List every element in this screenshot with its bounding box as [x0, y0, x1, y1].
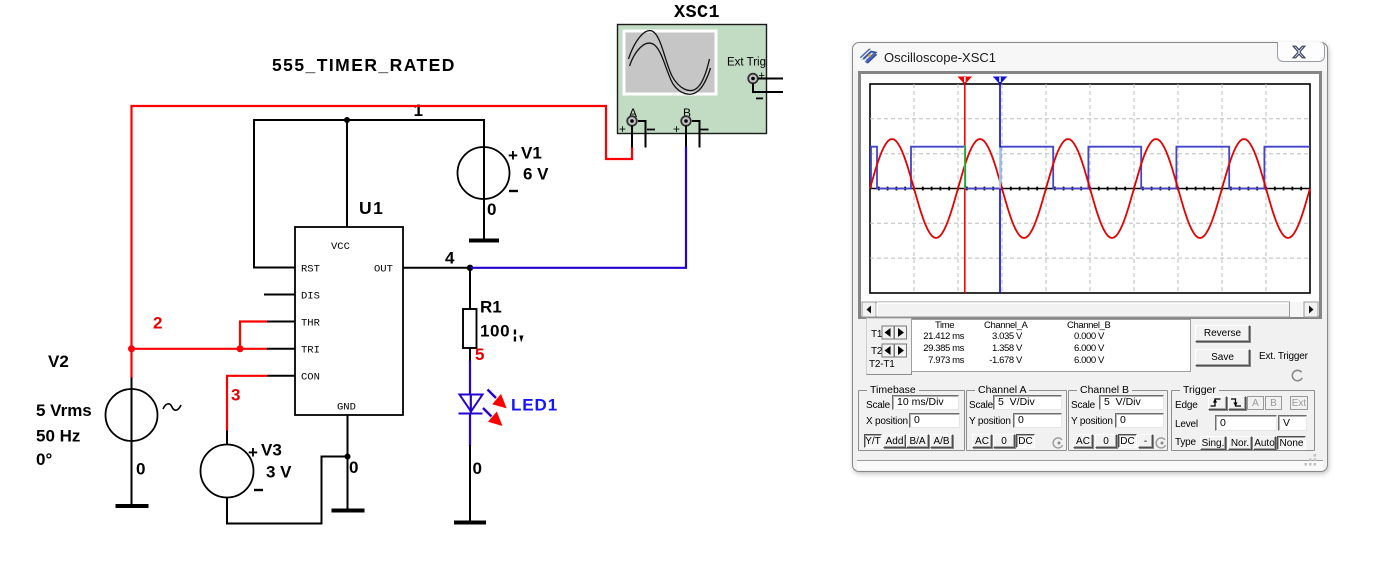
- wire net2 TRI rail red: [132, 348, 268, 350]
- wire net5 blue: [469, 361, 471, 396]
- close button: [1277, 42, 1325, 62]
- LED1 label: [511, 396, 558, 415]
- terminal B plus/minus: [673, 122, 709, 136]
- wire THR branch red: [240, 322, 268, 349]
- net label 2: [153, 314, 162, 333]
- cursor readout block T1/T2: [866, 318, 912, 375]
- wire scope B pin: [685, 126, 687, 148]
- trigger rising edge icon: [1211, 399, 1221, 406]
- net label 1: [414, 101, 423, 120]
- svg-text:DIS: DIS: [301, 291, 320, 303]
- cursor 1 red line: [964, 84, 966, 293]
- node junction net2 left: [128, 345, 135, 352]
- R1 labels: [480, 298, 510, 341]
- instrument screen: [623, 30, 718, 96]
- scope graph background: [870, 84, 1310, 293]
- wire CON stub: [267, 375, 295, 377]
- Ext. Trigger label: [1259, 351, 1308, 362]
- oscilloscope instrument XSC1 body: [618, 25, 767, 134]
- Timebase group: [858, 390, 965, 451]
- svg-text:5 Vrms: 5 Vrms: [36, 401, 92, 420]
- V2 labels: [36, 352, 145, 479]
- U1 555 timer box: [295, 227, 403, 415]
- wire net3 red: [227, 376, 268, 432]
- wire LED1 to ground: [469, 445, 471, 521]
- svg-text:100: 100: [480, 322, 510, 341]
- svg-text:0: 0: [349, 458, 358, 477]
- scrollbar track: [862, 302, 1318, 317]
- Channel B group: [1068, 390, 1168, 451]
- svg-text:+: +: [248, 443, 258, 462]
- V2 sine symbol: [163, 404, 181, 410]
- Reverse button: [1195, 325, 1250, 342]
- cursor 2 marker triangle: [993, 77, 1008, 85]
- wire OUT stub net4: [403, 267, 470, 269]
- svg-text:1: 1: [414, 101, 423, 120]
- svg-text:5: 5: [475, 345, 484, 364]
- axis tick marks: [879, 187, 1301, 191]
- XSC1 label: [674, 2, 720, 23]
- V1 source circle: [458, 147, 510, 199]
- svg-text:4: 4: [445, 249, 455, 268]
- V2 source circle: [106, 389, 158, 441]
- svg-text:6 V: 6 V: [523, 165, 549, 184]
- svg-text:LED1: LED1: [511, 396, 558, 415]
- svg-text:OUT: OUT: [374, 264, 393, 276]
- svg-text:2: 2: [153, 314, 162, 333]
- wire ext trig minus: [753, 84, 783, 93]
- svg-text:A: A: [629, 106, 637, 120]
- instrument screen sine curves: [629, 31, 711, 95]
- readout table: [911, 319, 1191, 372]
- Ext Trig label: [727, 57, 766, 69]
- terminal A plus/minus: [619, 122, 655, 136]
- svg-text:+: +: [619, 122, 626, 136]
- svg-text:XSC1: XSC1: [674, 2, 720, 23]
- wire net2 left drop red: [130, 105, 132, 379]
- wire V2 lead: [131, 378, 133, 506]
- wire V3 negative loop: [227, 457, 348, 524]
- scope grid vertical lines: [914, 84, 1266, 293]
- net label 5: [475, 345, 484, 364]
- node net4 junction: [467, 265, 473, 271]
- terminal A: [627, 116, 637, 126]
- svg-text:Ext Trig: Ext Trig: [727, 57, 766, 69]
- cursor 1 marker triangle: [958, 77, 973, 85]
- close button X glyph: [1293, 46, 1305, 58]
- channel B coupling indicator circle: [1156, 438, 1165, 448]
- svg-text:0°: 0°: [36, 450, 52, 469]
- wire TRI stub: [267, 348, 295, 350]
- svg-text:+: +: [673, 122, 680, 136]
- scope display panel: [858, 71, 1322, 319]
- net label 0 under LED: [473, 459, 482, 478]
- wire GND pin: [347, 415, 349, 509]
- oscilloscope window XSC1: [852, 42, 1328, 472]
- V1 labels: [487, 144, 549, 220]
- svg-text:CON: CON: [301, 372, 320, 384]
- svg-text:V3: V3: [261, 441, 282, 460]
- svg-text:VCC: VCC: [331, 241, 350, 253]
- node VCC junction: [344, 117, 350, 123]
- ground below V1: [469, 239, 499, 243]
- scrollbar left button: [862, 302, 876, 317]
- svg-text:U1: U1: [359, 198, 384, 218]
- svg-text:50 Hz: 50 Hz: [36, 427, 80, 446]
- wire net2 top rail red: [132, 105, 607, 107]
- wire scope B minus stub: [692, 121, 700, 148]
- svg-text:0: 0: [473, 459, 482, 478]
- T2 left/right arrow buttons: [882, 344, 907, 357]
- svg-text:B: B: [683, 106, 691, 120]
- resistor R1 body: [463, 309, 477, 348]
- node junction net2 THR: [237, 345, 244, 352]
- svg-text:THR: THR: [301, 318, 321, 330]
- channel A sine wave trace: [870, 139, 1310, 238]
- U1 pin labels: [301, 241, 393, 414]
- wire V3 top black: [226, 431, 228, 446]
- svg-text:3 V: 3 V: [266, 463, 292, 482]
- terminal B: [681, 116, 691, 126]
- ground below GND pin: [332, 509, 365, 513]
- svg-text:+: +: [508, 146, 518, 165]
- wire LED1 top blue: [469, 414, 471, 447]
- V3 source circle: [201, 445, 254, 498]
- wire scope A minus stub: [638, 121, 646, 148]
- node GND junction: [345, 454, 351, 460]
- svg-text:R1: R1: [480, 298, 502, 317]
- wire VCC pin: [346, 120, 348, 227]
- Trigger group: [1171, 390, 1315, 451]
- net label 3: [231, 386, 240, 405]
- net label 4: [445, 249, 455, 268]
- svg-text:+: +: [759, 70, 765, 82]
- T1 left/right arrow buttons: [882, 326, 907, 339]
- window resize grip: [1305, 454, 1317, 466]
- wire ext trig plus: [758, 78, 783, 80]
- Channel A group: [966, 390, 1067, 451]
- Save button: [1195, 349, 1250, 366]
- svg-text:555_TIMER_RATED: 555_TIMER_RATED: [272, 55, 456, 75]
- V3 minus sign: [254, 489, 263, 491]
- channel A coupling indicator circle: [1053, 438, 1062, 448]
- wire net1 RST to top rail: [254, 120, 485, 268]
- svg-text:RST: RST: [301, 264, 320, 276]
- svg-text:V1: V1: [521, 144, 542, 163]
- instrument label B: [683, 106, 691, 120]
- wire R1 bottom: [469, 348, 471, 362]
- scrollbar right button: [1304, 302, 1318, 317]
- svg-text:0: 0: [136, 460, 145, 479]
- V3 labels: [248, 441, 358, 482]
- cursor 2 blue line: [999, 84, 1001, 293]
- channel B square wave trace: [871, 147, 1310, 189]
- trigger falling edge icon: [1231, 399, 1241, 406]
- instrument label A: [629, 106, 637, 120]
- wire V1 lead: [483, 120, 485, 239]
- LED1 emission arrows: [483, 390, 507, 427]
- U1 reference label: [359, 198, 384, 218]
- ext trigger indicator circle: [1292, 370, 1302, 380]
- scrollbar thumb: [877, 302, 1290, 317]
- svg-text:0: 0: [487, 200, 496, 219]
- ground below V2: [116, 504, 149, 508]
- svg-text:GND: GND: [337, 402, 356, 414]
- ground below LED1: [454, 521, 486, 525]
- Ext Trig terminal: [748, 70, 765, 98]
- wire THR stub: [267, 321, 295, 323]
- scope grid horizontal lines: [870, 119, 1310, 258]
- svg-text:V2: V2: [48, 352, 69, 371]
- wire net2 right drop to scope A: [606, 105, 632, 159]
- wire net4 blue to scope B: [470, 147, 686, 268]
- R1 ohm garbled glyph: [514, 330, 524, 343]
- svg-text:TRI: TRI: [301, 345, 320, 357]
- title bar multisim icon: [860, 49, 878, 64]
- schematic title: [272, 55, 456, 75]
- LED1 diode symbol: [459, 395, 483, 414]
- wire net4 down to R1: [469, 268, 471, 309]
- wire scope A pin: [631, 126, 633, 148]
- wire DIS stub: [264, 294, 295, 296]
- time axis: [870, 188, 1310, 190]
- svg-text:3: 3: [231, 386, 240, 405]
- V1 minus sign: [509, 190, 518, 192]
